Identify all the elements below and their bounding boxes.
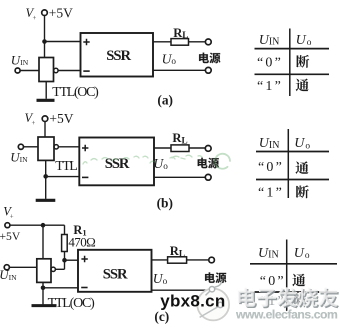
circuit (b): TTL drives SSR + input, - input grounded — [10, 111, 219, 210]
terminal load bottom (b) — [205, 174, 211, 180]
wire bubble to SSR - input (a) — [58, 70, 80, 72]
elecfans logo disc watermark — [197, 281, 229, 321]
svg-text:SSR: SSR — [103, 266, 128, 282]
truth table (a) — [255, 29, 330, 97]
pin - (c) — [81, 287, 87, 289]
pin - (a) — [83, 70, 89, 72]
wire bubble to SSR + (b) — [58, 146, 79, 148]
circuit (c): TTL(OC) with external pull-up R1 to +5V — [0, 205, 226, 324]
wire node to SSR + (c) — [65, 259, 79, 261]
resistor R1 470 ohm (c) — [62, 235, 68, 252]
wire TTL to ground (a) — [45, 82, 47, 99]
pin + (b) — [82, 145, 88, 151]
table (c) vertical rule — [286, 240, 288, 315]
junction dot ground rail (c) — [41, 286, 46, 291]
terminal load top (a) — [205, 39, 211, 45]
open-collector bubble (a) — [54, 68, 58, 72]
table (b) rule under header — [256, 151, 329, 153]
wire RL to terminal (c) — [187, 259, 209, 261]
table (a) cell 通 — [296, 79, 309, 92]
table (b) cell 断 — [296, 185, 309, 198]
ground (a) — [37, 99, 55, 102]
pin + (c) — [81, 256, 87, 262]
junction dot +5V rail (c) — [41, 223, 46, 228]
table (a) rule under header — [255, 48, 330, 50]
op-amp/relay box SSR U1 (a) — [81, 33, 154, 77]
wire V+ rail to SSR + input (a) — [45, 41, 81, 43]
wire junction to SSR - (c) — [43, 287, 78, 289]
terminal load top (b) — [205, 146, 211, 152]
table (c) cell 通 — [292, 274, 305, 287]
wire SSR bottom output to terminal (b) — [154, 176, 205, 178]
green watermark scribble (b) — [83, 154, 230, 169]
resistor RL (c) — [168, 257, 187, 263]
wire SSR output bottom to terminal (a) — [153, 69, 205, 71]
svg-text:TTL(OC): TTL(OC) — [48, 296, 96, 311]
terminal U_IN (c) — [4, 265, 9, 270]
svg-text:470Ω: 470Ω — [68, 234, 95, 249]
table (c) rule under row 1 — [250, 291, 337, 293]
terminal load bottom (a) — [205, 67, 211, 73]
wire TTL bottom to junction (c) — [42, 282, 44, 287]
wire rail down to R1 (c) — [64, 225, 66, 234]
terminal +5V (c) — [5, 223, 10, 228]
wire junction to SSR - (b) — [46, 176, 80, 178]
junction dot R1/SSR+ (c) — [62, 258, 67, 263]
SSR box U2 (b) — [79, 138, 154, 186]
svg-text:www.elecfans.com: www.elecfans.com — [235, 308, 338, 322]
wire RL to terminal (b) — [189, 147, 205, 149]
svg-text:+5V: +5V — [49, 5, 73, 20]
TTL open-collector output device (a) — [39, 58, 54, 82]
TTL output device (c) — [37, 259, 51, 283]
truth table (c) — [250, 240, 337, 315]
ground (b) — [36, 199, 56, 202]
output bubble (c) — [51, 267, 55, 271]
junction dot (a) V+ rail — [42, 39, 47, 44]
resistor RL (b) — [171, 145, 189, 152]
wire junction to ground (b) — [45, 176, 47, 199]
table (b) vertical rule — [287, 129, 289, 198]
table (b) cell 通 — [295, 161, 308, 174]
terminal load top (c) — [209, 257, 215, 263]
wire SSR top output to RL (b) — [154, 147, 171, 149]
svg-text:+5V: +5V — [49, 111, 73, 126]
wire SSR output top to RL (a) — [153, 41, 171, 43]
resistor RL (a) — [171, 39, 189, 46]
terminal +5V (a) — [42, 10, 48, 16]
table (c) cell 断 (ghosted by watermark) — [294, 294, 307, 307]
wire U_IN to TTL (c) — [9, 266, 36, 268]
svg-text:(a): (a) — [157, 93, 173, 108]
svg-text:“0”: “0” — [257, 55, 283, 70]
svg-text:SSR: SSR — [106, 48, 131, 64]
label 电源 (b) — [198, 158, 208, 168]
svg-text:“1”: “1” — [257, 79, 283, 94]
terminal U_IN (b) — [18, 144, 23, 149]
wire +5V rail (c) — [10, 224, 65, 226]
pin + (a) — [83, 39, 89, 45]
svg-text:“1”: “1” — [258, 186, 284, 201]
wire R1 bottom to bubble node (c) — [64, 252, 66, 270]
label 电源 (c) — [205, 272, 215, 282]
table (a) cell 断 — [296, 55, 309, 68]
table (b) rule under row 1 — [256, 179, 329, 181]
wire SSR bottom output (c) — [152, 289, 209, 291]
watermark text 电子发烧友 — [238, 287, 339, 308]
circuit (a): TTL(OC) drive with pull-up to V+, SSR input + tied to +5V — [11, 5, 221, 107]
table (c) rule under header — [250, 263, 337, 265]
svg-text:TTL: TTL — [55, 159, 77, 174]
wire SSR top output to RL (c) — [152, 259, 168, 261]
wire V+ down to TTL (c) — [42, 225, 44, 259]
table (a) vertical rule — [289, 29, 291, 97]
terminal U_IN (a) — [15, 68, 20, 73]
ground (c) — [32, 304, 57, 307]
SSR box U3 (c) — [78, 250, 152, 292]
svg-text:ybx8.cn: ybx8.cn — [160, 291, 225, 310]
truth table (b) — [256, 129, 329, 198]
wire junction to ground (c) — [42, 288, 44, 305]
wire V+ to TTL (b) — [44, 122, 46, 137]
wire V+ vertical down to TTL box (a) — [44, 16, 46, 58]
TTL output device (b) — [38, 137, 54, 160]
wire bubble to pull-up node (c) — [55, 268, 64, 270]
svg-text:“0”: “0” — [258, 160, 284, 175]
svg-text:TTL(OC): TTL(OC) — [52, 85, 99, 100]
svg-text:(c): (c) — [154, 309, 169, 324]
junction dot (b) — [43, 174, 48, 179]
wire RL to terminal (a) — [189, 41, 206, 43]
output bubble (b) — [54, 145, 58, 149]
wire U_IN to TTL (a) — [20, 70, 39, 72]
label power-source 电源 (a) — [199, 53, 209, 63]
pin - (b) — [82, 176, 88, 178]
table (a) rule under row 1 — [255, 73, 330, 75]
svg-text:(b): (b) — [157, 195, 173, 210]
wire U_IN to TTL (b) — [24, 146, 39, 148]
terminal +5V (b) — [42, 116, 48, 122]
wire TTL bottom to junction (b) — [45, 160, 47, 176]
svg-text:“0”: “0” — [260, 274, 286, 289]
svg-text:+5V: +5V — [0, 230, 21, 243]
